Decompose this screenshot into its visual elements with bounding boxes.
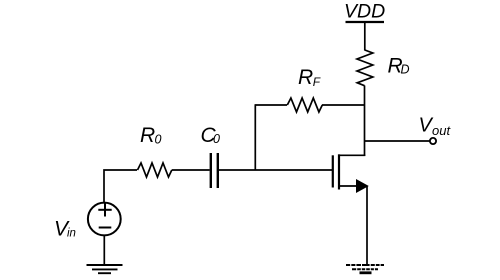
wire: source to ground (366, 186, 368, 265)
label Vout (419, 115, 452, 138)
source Vin circle (88, 203, 121, 236)
label R0 (140, 124, 162, 147)
capacitor C0 plate 2 (217, 153, 219, 188)
transistor M1 source arrowhead (356, 179, 369, 193)
supply rail bar (346, 21, 385, 23)
resistor RF (287, 98, 322, 112)
wire: VDD rail to RD (364, 22, 366, 51)
resistor R0 (138, 163, 172, 177)
wire: RF left segment (255, 104, 287, 106)
ground (input) (87, 265, 123, 273)
label Vin (54, 217, 76, 240)
wire: C0 to gate (219, 169, 332, 171)
capacitor C0 plate 1 (210, 153, 212, 188)
svg-text:0: 0 (213, 132, 220, 146)
svg-text:R: R (298, 66, 313, 89)
svg-text:in: in (67, 228, 76, 240)
transistor M1 channel bar (338, 154, 340, 189)
wire: RF right segment (322, 104, 365, 106)
wire: Vin to ground (103, 235, 105, 265)
svg-text:0: 0 (155, 132, 162, 146)
wire: drain node vertical (364, 86, 366, 157)
transistor M1 source lead (339, 185, 362, 187)
transistor M1 gate bar (332, 155, 334, 187)
source Vin minus sign (99, 227, 112, 229)
label RD (388, 55, 410, 78)
ground (source) (346, 264, 384, 273)
wire: Vout tap (365, 140, 430, 142)
svg-text:out: out (432, 123, 451, 138)
svg-text:F: F (313, 75, 321, 89)
wire: feedback left vertical (254, 104, 256, 170)
terminal Vout (430, 138, 436, 144)
svg-text:R: R (140, 124, 155, 147)
source Vin plus sign (98, 203, 111, 216)
wire: R0 to C0 (172, 169, 210, 171)
label RF (298, 66, 321, 89)
label C0 (201, 124, 221, 147)
wire: Vin to R0 (104, 170, 137, 203)
resistor RD (357, 50, 373, 86)
svg-text:VDD: VDD (344, 1, 385, 23)
svg-text:D: D (401, 63, 410, 77)
transistor M1 drain lead (339, 154, 365, 156)
